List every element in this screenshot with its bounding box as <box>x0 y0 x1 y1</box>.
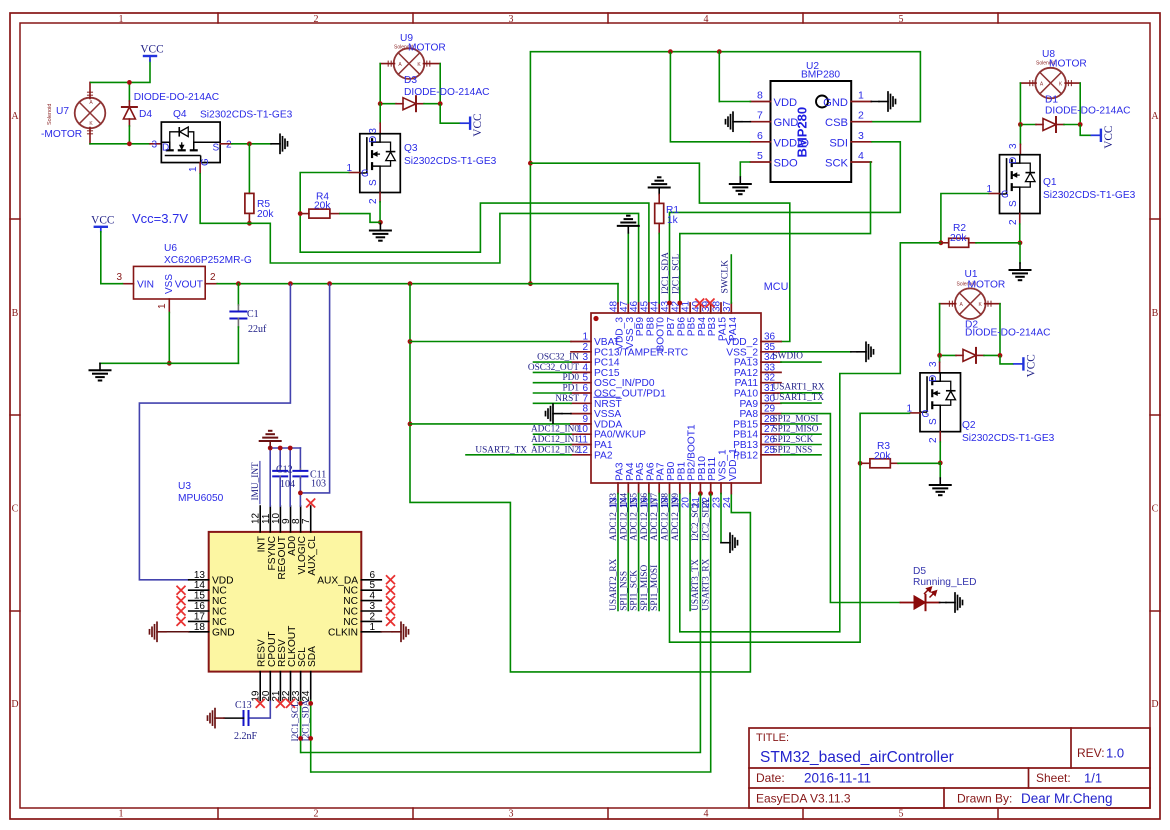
svg-text:ADC12_IN7: ADC12_IN7 <box>650 493 660 541</box>
svg-text:SDA: SDA <box>307 646 318 667</box>
svg-text:Running_LED: Running_LED <box>913 577 976 588</box>
svg-text:ADC12_IN4: ADC12_IN4 <box>619 493 629 541</box>
svg-text:VDD: VDD <box>774 97 798 109</box>
svg-text:MOTOR: MOTOR <box>1049 59 1087 70</box>
svg-text:5: 5 <box>899 14 904 25</box>
svg-text:XC6206P252MR-G: XC6206P252MR-G <box>164 255 252 266</box>
svg-text:ADC12_IN3: ADC12_IN3 <box>609 493 619 541</box>
svg-text:VCC: VCC <box>1103 126 1115 149</box>
svg-text:MOTOR: MOTOR <box>968 280 1006 291</box>
svg-text:1: 1 <box>370 622 376 633</box>
svg-text:I2C1_SDA: I2C1_SDA <box>301 699 311 741</box>
svg-text:GND: GND <box>774 117 799 129</box>
svg-text:BMP280: BMP280 <box>795 107 810 158</box>
svg-text:2: 2 <box>370 611 376 622</box>
svg-text:-MOTOR: -MOTOR <box>41 129 82 140</box>
svg-text:7: 7 <box>301 518 312 524</box>
svg-text:3: 3 <box>858 130 864 142</box>
svg-text:3: 3 <box>1008 143 1019 149</box>
svg-text:AUX_DA: AUX_DA <box>317 575 358 586</box>
svg-text:PD0: PD0 <box>562 373 579 383</box>
svg-text:5: 5 <box>899 809 904 820</box>
svg-text:ADC12_IN5: ADC12_IN5 <box>630 493 640 541</box>
svg-text:REV:: REV: <box>1077 746 1105 760</box>
svg-text:104: 104 <box>280 479 295 490</box>
svg-text:GND: GND <box>212 627 235 638</box>
svg-text:I2C1_SDA: I2C1_SDA <box>661 252 671 294</box>
svg-text:NRST: NRST <box>555 394 579 404</box>
svg-text:Si2302CDS-T1-GE3: Si2302CDS-T1-GE3 <box>404 156 497 167</box>
svg-text:AUX_CL: AUX_CL <box>307 536 318 576</box>
svg-text:B: B <box>12 308 19 319</box>
svg-text:CLKIN: CLKIN <box>328 627 358 638</box>
svg-text:BMP280: BMP280 <box>801 70 840 81</box>
svg-text:2: 2 <box>314 809 319 820</box>
svg-text:A: A <box>11 111 19 122</box>
svg-text:NC: NC <box>212 617 227 628</box>
svg-text:D: D <box>1151 699 1158 710</box>
svg-text:OSC32_IN: OSC32_IN <box>537 353 579 363</box>
svg-text:2016-11-11: 2016-11-11 <box>804 771 871 786</box>
svg-text:I2C2_SDA: I2C2_SDA <box>701 499 711 541</box>
svg-text:3: 3 <box>509 809 514 820</box>
svg-text:C13: C13 <box>235 700 252 711</box>
svg-text:DIODE-DO-214AC: DIODE-DO-214AC <box>134 92 219 103</box>
svg-text:U1: U1 <box>965 269 978 280</box>
svg-text:5: 5 <box>757 150 763 162</box>
svg-text:U3: U3 <box>178 481 191 492</box>
svg-text:CSB: CSB <box>825 117 848 129</box>
svg-text:Q2: Q2 <box>962 420 976 431</box>
svg-text:S: S <box>1008 200 1019 207</box>
svg-text:NC: NC <box>343 586 358 597</box>
svg-text:D1: D1 <box>1045 95 1058 106</box>
svg-text:VCC: VCC <box>91 214 114 226</box>
svg-text:Si2302CDS-T1-GE3: Si2302CDS-T1-GE3 <box>1043 190 1136 201</box>
svg-text:2: 2 <box>928 437 939 443</box>
svg-text:7: 7 <box>757 110 763 122</box>
svg-text:18: 18 <box>194 622 206 633</box>
svg-text:15: 15 <box>194 591 206 602</box>
svg-text:4: 4 <box>370 591 376 602</box>
svg-text:2: 2 <box>314 14 319 25</box>
svg-text:20k: 20k <box>950 233 967 244</box>
svg-text:4: 4 <box>704 14 709 25</box>
svg-text:IMU_INT: IMU_INT <box>251 462 261 501</box>
svg-text:I2C1_SCL: I2C1_SCL <box>671 253 681 294</box>
svg-text:3: 3 <box>370 601 376 612</box>
svg-text:U7: U7 <box>56 106 69 117</box>
svg-text:S: S <box>213 143 220 154</box>
svg-text:SPI2_SCK: SPI2_SCK <box>773 435 814 445</box>
svg-text:20k: 20k <box>314 201 331 212</box>
svg-text:D3: D3 <box>404 75 417 86</box>
svg-text:3: 3 <box>928 361 939 367</box>
svg-text:SPI2_NSS: SPI2_NSS <box>773 445 813 455</box>
svg-text:Si2302CDS-T1-GE3: Si2302CDS-T1-GE3 <box>200 110 293 121</box>
svg-text:NC: NC <box>212 596 227 607</box>
svg-text:1.0: 1.0 <box>1106 746 1124 761</box>
svg-text:VDDIO: VDDIO <box>774 137 810 149</box>
svg-text:SWCLK: SWCLK <box>720 260 731 294</box>
svg-text:TITLE:: TITLE: <box>756 732 789 744</box>
svg-text:S: S <box>928 418 939 425</box>
svg-text:1: 1 <box>119 809 124 820</box>
svg-text:1/1: 1/1 <box>1084 771 1102 786</box>
svg-text:16: 16 <box>194 601 206 612</box>
svg-text:DIODE-DO-214AC: DIODE-DO-214AC <box>1045 106 1130 117</box>
svg-text:SPI1_SCK: SPI1_SCK <box>630 570 640 611</box>
svg-text:C12: C12 <box>276 465 293 476</box>
svg-text:D4: D4 <box>139 109 152 120</box>
svg-text:D: D <box>928 375 939 382</box>
svg-text:USART2_TX: USART2_TX <box>475 445 527 455</box>
svg-text:SWDIO: SWDIO <box>773 352 804 362</box>
svg-text:USART3_RX: USART3_RX <box>701 558 711 610</box>
svg-text:1: 1 <box>157 303 168 309</box>
svg-text:17: 17 <box>194 611 206 622</box>
svg-text:STM32_based_airController: STM32_based_airController <box>760 749 954 766</box>
svg-text:VIN: VIN <box>137 280 154 291</box>
svg-text:ADC12_IN2: ADC12_IN2 <box>531 445 579 455</box>
svg-text:22uf: 22uf <box>248 324 267 335</box>
svg-text:MCU: MCU <box>764 281 789 293</box>
svg-text:2: 2 <box>368 198 379 204</box>
svg-text:I2C2_SCL: I2C2_SCL <box>691 500 701 541</box>
svg-text:Q3: Q3 <box>404 143 418 154</box>
svg-text:NC: NC <box>343 617 358 628</box>
svg-text:8: 8 <box>757 90 763 102</box>
svg-text:SCK: SCK <box>825 158 849 170</box>
svg-text:ADC12_IN0: ADC12_IN0 <box>531 425 579 435</box>
svg-text:D: D <box>368 136 379 143</box>
svg-text:Drawn By:: Drawn By: <box>957 792 1012 806</box>
svg-text:VCC: VCC <box>1025 354 1037 377</box>
svg-text:SPI1_NSS: SPI1_NSS <box>619 571 629 611</box>
svg-text:2: 2 <box>1008 219 1019 225</box>
svg-text:C: C <box>1152 504 1159 515</box>
svg-text:OSC32_OUT: OSC32_OUT <box>528 363 579 373</box>
svg-text:D: D <box>162 143 169 154</box>
svg-text:ADC12_IN6: ADC12_IN6 <box>640 493 650 541</box>
svg-text:G: G <box>361 169 369 180</box>
svg-text:4: 4 <box>858 150 864 162</box>
svg-text:C1: C1 <box>247 309 259 320</box>
svg-text:S: S <box>368 179 379 186</box>
svg-text:MOTOR: MOTOR <box>408 43 446 54</box>
svg-text:SDI: SDI <box>829 137 848 149</box>
svg-text:USART3_TX: USART3_TX <box>691 559 701 611</box>
svg-text:2: 2 <box>858 110 864 122</box>
svg-text:Dear Mr.Cheng: Dear Mr.Cheng <box>1021 791 1113 806</box>
svg-text:Date:: Date: <box>756 771 785 785</box>
svg-text:USART1_TX: USART1_TX <box>773 393 825 403</box>
svg-text:PA14: PA14 <box>728 317 739 341</box>
svg-text:1: 1 <box>119 14 124 25</box>
svg-text:SPI1_MOSI: SPI1_MOSI <box>650 565 660 611</box>
svg-text:EasyEDA V3.11.3: EasyEDA V3.11.3 <box>756 792 851 806</box>
svg-text:3: 3 <box>368 128 379 134</box>
svg-text:3: 3 <box>509 14 514 25</box>
svg-text:PD1: PD1 <box>562 384 579 394</box>
svg-text:I2C1_SCL: I2C1_SCL <box>291 701 301 742</box>
svg-text:VDD_1: VDD_1 <box>728 448 739 481</box>
svg-text:VCC: VCC <box>140 44 163 56</box>
svg-text:VOUT: VOUT <box>175 280 203 291</box>
svg-text:SPI1_MISO: SPI1_MISO <box>640 565 650 611</box>
svg-text:1: 1 <box>858 90 864 102</box>
svg-text:NC: NC <box>343 596 358 607</box>
svg-text:VSS: VSS <box>164 274 175 294</box>
svg-text:6: 6 <box>757 130 763 142</box>
svg-text:VDD: VDD <box>212 575 234 586</box>
svg-text:1: 1 <box>188 166 199 172</box>
svg-text:Q1: Q1 <box>1043 177 1057 188</box>
svg-text:PA2: PA2 <box>594 450 613 461</box>
svg-text:Si2302CDS-T1-GE3: Si2302CDS-T1-GE3 <box>962 433 1055 444</box>
svg-text:3: 3 <box>116 272 122 283</box>
svg-text:D: D <box>1008 157 1019 164</box>
svg-text:Sheet:: Sheet: <box>1036 771 1071 785</box>
svg-text:USART1_RX: USART1_RX <box>773 383 825 393</box>
svg-text:D: D <box>11 699 18 710</box>
svg-text:DIODE-DO-214AC: DIODE-DO-214AC <box>404 87 489 98</box>
svg-text:Solenoid: Solenoid <box>47 104 53 125</box>
svg-text:20k: 20k <box>257 209 274 220</box>
svg-text:G: G <box>1001 190 1009 201</box>
svg-text:D5: D5 <box>913 566 926 577</box>
svg-text:NC: NC <box>343 607 358 618</box>
svg-text:NC: NC <box>212 607 227 618</box>
svg-text:DIODE-DO-214AC: DIODE-DO-214AC <box>965 328 1050 339</box>
svg-text:A: A <box>1151 111 1159 122</box>
svg-text:6: 6 <box>370 570 376 581</box>
svg-text:C: C <box>12 504 19 515</box>
svg-text:4: 4 <box>704 809 709 820</box>
svg-text:5: 5 <box>370 580 376 591</box>
svg-text:U6: U6 <box>164 243 177 254</box>
svg-text:20k: 20k <box>874 451 891 462</box>
svg-text:3: 3 <box>151 140 157 151</box>
svg-text:24: 24 <box>722 497 733 509</box>
svg-text:SPI2_MISO: SPI2_MISO <box>773 425 819 435</box>
svg-text:103: 103 <box>311 479 326 490</box>
svg-text:2: 2 <box>210 272 216 283</box>
svg-text:2.2nF: 2.2nF <box>234 731 258 742</box>
svg-text:VCC: VCC <box>472 113 484 136</box>
svg-text:SDO: SDO <box>774 158 799 170</box>
svg-text:Vcc=3.7V: Vcc=3.7V <box>132 211 188 226</box>
svg-text:2: 2 <box>226 140 232 151</box>
svg-text:NC: NC <box>212 586 227 597</box>
svg-text:SPI2_MOSI: SPI2_MOSI <box>773 414 819 424</box>
svg-text:13: 13 <box>194 570 206 581</box>
svg-text:USART2_RX: USART2_RX <box>609 558 619 610</box>
svg-text:B: B <box>1152 308 1159 319</box>
svg-text:14: 14 <box>194 580 206 591</box>
svg-text:GND: GND <box>823 97 848 109</box>
svg-text:MPU6050: MPU6050 <box>178 493 224 504</box>
svg-text:G: G <box>200 158 211 166</box>
svg-text:Q4: Q4 <box>173 109 187 120</box>
svg-text:ADC12_IN1: ADC12_IN1 <box>531 435 579 445</box>
svg-text:1k: 1k <box>667 215 679 226</box>
